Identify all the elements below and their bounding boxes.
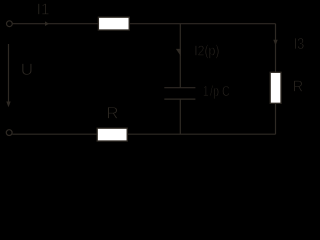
svg-text:I1: I1 [37,1,50,18]
svg-text:1/p C: 1/p C [203,82,230,99]
svg-text:R: R [293,78,303,96]
svg-text:I3: I3 [294,36,305,54]
svg-text:U: U [21,60,33,79]
svg-text:I2(p): I2(p) [194,42,219,58]
svg-text:R: R [106,103,118,122]
